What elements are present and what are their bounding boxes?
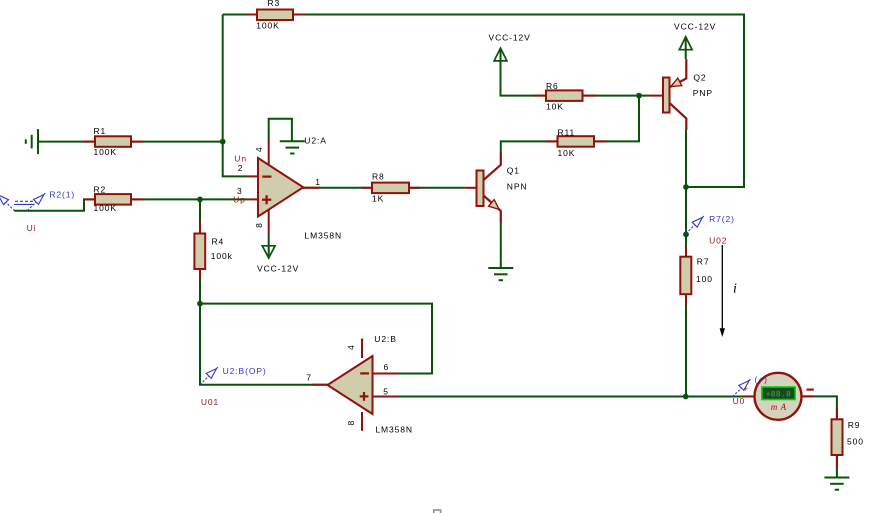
svg-text:R11: R11 (558, 127, 576, 137)
svg-text:R2: R2 (94, 184, 107, 194)
svg-text:100K: 100K (256, 21, 279, 31)
svg-text:PNP: PNP (693, 88, 713, 98)
svg-text:7: 7 (306, 373, 312, 383)
svg-text:+88.8: +88.8 (765, 389, 791, 399)
svg-text:VCC-12V: VCC-12V (674, 21, 716, 31)
svg-text:8: 8 (254, 222, 264, 228)
svg-text:Un: Un (234, 154, 247, 164)
svg-text:8: 8 (346, 420, 356, 426)
svg-text:1: 1 (315, 177, 321, 187)
svg-text:(+): (+) (755, 374, 768, 384)
svg-text:Q2: Q2 (693, 73, 706, 83)
svg-text:R4: R4 (212, 236, 225, 246)
svg-text:U01: U01 (201, 397, 219, 407)
svg-text:U2:A: U2:A (304, 136, 327, 146)
svg-text:10K: 10K (546, 102, 564, 112)
svg-text:R7(2): R7(2) (709, 214, 735, 224)
svg-text:i: i (733, 282, 738, 297)
svg-text:+: + (744, 385, 750, 394)
svg-text:10K: 10K (558, 148, 576, 158)
svg-text:R9: R9 (848, 420, 861, 430)
svg-text:4: 4 (346, 344, 356, 350)
svg-text:Ui: Ui (27, 223, 37, 233)
svg-text:1K: 1K (372, 194, 384, 204)
svg-text:R2(1): R2(1) (49, 189, 75, 199)
svg-text:NPN: NPN (507, 182, 528, 192)
svg-text:VCC-12V: VCC-12V (257, 264, 299, 274)
svg-text:LM358N: LM358N (305, 230, 343, 240)
svg-text:100: 100 (696, 274, 713, 284)
svg-text:LM358N: LM358N (375, 425, 413, 435)
svg-text:R8: R8 (372, 171, 385, 181)
svg-text:500: 500 (847, 436, 864, 446)
svg-text:100K: 100K (94, 203, 117, 213)
svg-text:100K: 100K (94, 147, 117, 157)
svg-text:U0: U0 (733, 396, 746, 406)
svg-text:R3: R3 (268, 0, 281, 8)
svg-text:2: 2 (238, 163, 244, 173)
svg-text:Up: Up (233, 195, 246, 205)
svg-text:R1: R1 (94, 126, 107, 136)
svg-text:U02: U02 (709, 235, 727, 245)
svg-text:6: 6 (384, 362, 390, 372)
svg-text:Q1: Q1 (507, 165, 520, 175)
svg-text:4: 4 (254, 146, 264, 152)
svg-text:R7: R7 (697, 257, 710, 267)
svg-text:U2:B: U2:B (374, 334, 397, 344)
svg-text:5: 5 (383, 386, 389, 396)
svg-text:R6: R6 (546, 81, 559, 91)
svg-text:m A: m A (771, 402, 787, 412)
svg-text:U2:B(OP): U2:B(OP) (223, 366, 267, 376)
svg-text:100k: 100k (211, 251, 233, 261)
svg-text:VCC-12V: VCC-12V (489, 33, 531, 43)
